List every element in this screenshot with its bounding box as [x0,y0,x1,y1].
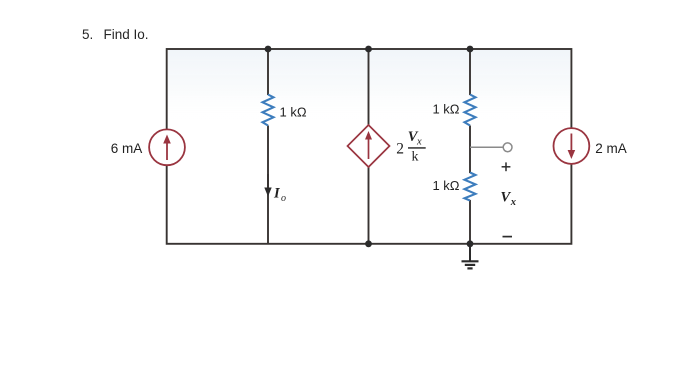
label Vx [501,190,517,208]
resistor R3 1 kΩ (branch 4 bottom zigzag) [465,173,476,201]
wire: branch 2 vertical lower [267,126,269,244]
svg-text:k: k [412,149,419,164]
svg-text:o: o [281,193,286,204]
svg-text:x: x [510,197,516,208]
svg-text:6 mA: 6 mA [111,141,143,156]
svg-text:1 kΩ: 1 kΩ [280,105,307,120]
node dot bottom branch 3 [365,240,372,247]
wire: branch 3 vertical [368,49,370,244]
node dot bottom branch 4 [467,240,474,247]
wire: branch 4 vertical upper [469,49,471,95]
wire: branch 4 vertical middle [469,126,471,174]
label Io [273,186,286,205]
node dot top branch 3 [365,46,372,53]
label + [502,162,511,171]
title text "5. Find Io." [82,27,149,42]
current arrow Io on branch 2 [264,174,271,197]
node: open terminal circle [503,143,512,152]
wire: gray tap wire to open terminal [470,146,503,148]
label − [503,236,513,238]
svg-text:5.: 5. [82,27,93,42]
current source I2 2 mA [554,128,590,164]
svg-text:x: x [416,136,422,147]
svg-text:2: 2 [396,140,404,157]
resistor R2 1 kΩ (branch 4 top zigzag) [465,95,476,126]
svg-text:2 mA: 2 mA [595,141,627,156]
wire: outer rectangle of circuit [167,49,572,244]
resistor R1 1 kΩ (branch 2 zigzag) [263,95,274,126]
node dot top branch 2 [265,46,272,53]
svg-text:1 kΩ: 1 kΩ [432,178,459,193]
node dot top branch 4 [467,46,474,53]
svg-text:1 kΩ: 1 kΩ [432,102,459,117]
svg-text:Find Io.: Find Io. [104,27,149,42]
dependent source U1 (diamond 2Vx/k) [348,125,390,167]
ground [462,244,479,269]
label 2 Vx/k [396,129,425,164]
current source I1 6 mA [149,129,185,165]
svg-text:I: I [273,186,281,202]
wire: branch 4 vertical lower [469,200,471,244]
wire: branch 2 vertical upper [267,49,269,95]
